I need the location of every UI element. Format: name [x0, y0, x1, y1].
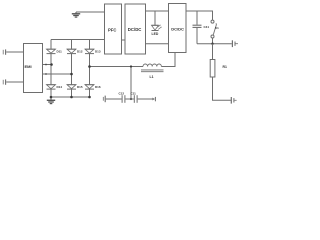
node rail-2 dot — [70, 96, 73, 99]
wire column 1 middle — [50, 54, 52, 85]
wire L input to EMI box — [6, 51, 23, 53]
wire EMI to node A (rail y64.5) — [43, 64, 52, 66]
node out rail junction — [211, 43, 213, 45]
svg-text:D14: D14 — [57, 85, 63, 89]
diode D15 — [67, 85, 76, 89]
wire C41 to out rail — [196, 28, 198, 44]
wire node C to transformer (y66.5) — [90, 66, 144, 68]
ground (bridge bottom) — [47, 97, 55, 104]
svg-text:DC/DC: DC/DC — [171, 27, 184, 32]
wire U2 to U3 (top, y11) — [146, 10, 169, 12]
node EMI wire B dot — [45, 73, 47, 75]
diode D12 — [67, 49, 76, 53]
terminal bottom-right of cap string — [152, 97, 155, 101]
block U3 (DC/DC output stage) — [169, 4, 187, 53]
wire column 1 lower — [50, 89, 52, 97]
wire U3 to switch — [186, 11, 213, 20]
capacitor C41 — [193, 25, 202, 27]
wire column 3 middle — [89, 54, 91, 85]
LED D20 — [152, 25, 162, 31]
wire U1 to U2 — [122, 39, 126, 41]
terminal bottom-left of cap string — [103, 96, 105, 103]
switch K1 — [211, 20, 217, 38]
node tap bottom — [130, 98, 132, 100]
svg-text:DC/DC: DC/DC — [128, 27, 142, 32]
node rail-3 dot — [88, 96, 91, 99]
svg-text:R1: R1 — [223, 65, 227, 69]
svg-text:D11: D11 — [57, 50, 63, 54]
resistor R1 — [210, 60, 215, 78]
EMI filter box — [24, 44, 43, 93]
svg-text:K1: K1 — [215, 26, 219, 30]
wire center tap down — [130, 67, 132, 100]
node B junction dot — [70, 73, 73, 76]
bottom rail of bridge — [51, 96, 90, 98]
node rail-1 dot — [50, 96, 53, 99]
ground (top, controller) — [72, 12, 80, 17]
node A junction dot — [50, 63, 53, 66]
wire ground to U1 — [76, 11, 105, 13]
capacitor C41 stem — [196, 11, 198, 25]
wire EMI to node B (rail y74) — [43, 73, 72, 75]
inductor L1 windings — [143, 64, 161, 67]
inductor L1 core — [141, 70, 164, 72]
wire L1 to U3 bottom — [161, 53, 175, 67]
wire R1 to bottom rail — [213, 77, 231, 100]
node tap top — [130, 65, 132, 67]
wire column 2 lower — [71, 89, 73, 97]
input terminal J2 (line N) — [3, 79, 5, 84]
terminal T2 (right bottom) — [231, 97, 236, 104]
svg-text:D13: D13 — [95, 50, 101, 54]
capacitor C12 — [122, 95, 125, 103]
svg-text:L1: L1 — [150, 75, 154, 79]
svg-text:EMI: EMI — [25, 64, 32, 69]
svg-text:LED: LED — [152, 32, 159, 36]
diode D14 — [47, 85, 56, 89]
wire column 2 middle — [71, 54, 73, 85]
capacitor C11 — [134, 95, 137, 103]
wire out rail (y43.7) — [197, 43, 232, 45]
svg-text:C12: C12 — [119, 91, 125, 95]
input terminal J1 (line L) — [3, 49, 5, 54]
wire column 3 lower — [89, 89, 91, 97]
wire U2 to U3 (bottom, y43.7) — [146, 43, 169, 45]
wire cap string left — [106, 98, 122, 100]
diode D11 — [47, 49, 56, 53]
svg-text:D12: D12 — [77, 50, 83, 54]
diode D16 — [85, 85, 94, 89]
terminal T1 (right mid) — [232, 40, 238, 47]
svg-text:D16: D16 — [95, 85, 101, 89]
svg-text:C41: C41 — [204, 25, 210, 29]
wire cap string middle — [125, 98, 133, 100]
top rail (DC bus) — [51, 39, 105, 41]
wire switch to out rail — [212, 38, 214, 44]
wire N input to EMI box — [6, 81, 23, 83]
node EMI wire A dot — [45, 64, 47, 66]
node C junction dot — [88, 65, 91, 68]
wire column 3 upper — [89, 40, 91, 50]
block U2 (DC/DC) — [125, 4, 146, 54]
block U1 (PFC controller) — [105, 4, 122, 54]
svg-text:PFC: PFC — [108, 28, 116, 33]
wire out rail to R1 — [212, 44, 214, 60]
wire column 1 upper — [50, 40, 52, 50]
wire column 2 upper — [71, 40, 73, 50]
svg-text:C11: C11 — [131, 91, 137, 95]
svg-text:D15: D15 — [77, 85, 83, 89]
wire LED stem — [154, 11, 156, 25]
diode D13 — [85, 49, 94, 53]
wire cap string right — [138, 98, 153, 100]
